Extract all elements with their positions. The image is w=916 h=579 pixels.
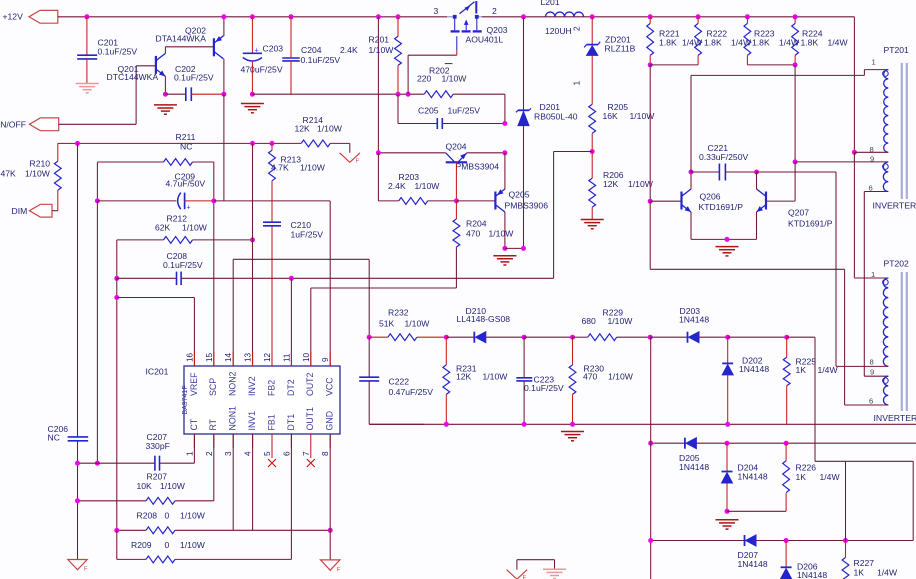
svg-text:NC: NC [180, 141, 192, 151]
capacitor C209 (electrolytic) [97, 200, 176, 202]
svg-text:R210: R210 [30, 159, 51, 169]
svg-text:1/4W: 1/4W [731, 37, 752, 47]
svg-text:1.8K: 1.8K [704, 37, 722, 47]
resistor R224 [794, 17, 796, 24]
resistor R226 [785, 443, 787, 461]
node PT201 pin8 feed [852, 150, 857, 155]
node C203 bottom / ground [250, 92, 255, 97]
svg-text:5: 5 [263, 451, 272, 456]
wire pin8 GND down [329, 434, 331, 560]
node D202 top [725, 335, 730, 340]
resistor R225 [786, 337, 788, 357]
svg-text:R226: R226 [796, 463, 817, 473]
svg-text:1/10W: 1/10W [483, 372, 509, 382]
wire D207 row [651, 540, 914, 542]
svg-text:6: 6 [282, 451, 291, 456]
resistor R213 [271, 143, 273, 150]
node D204 top [725, 441, 730, 446]
wire PT202 pin9 [864, 375, 888, 377]
wire PT201 pin1 feed [691, 74, 864, 76]
node bus-R221 [648, 14, 653, 19]
svg-text:DT2: DT2 [286, 379, 296, 396]
svg-text:NON2: NON2 [228, 371, 238, 396]
node C209 right / VCC wire [211, 198, 216, 203]
wire PT202 pin1 [854, 277, 888, 279]
wire Q206 collector riser [690, 172, 692, 189]
connector DIM [29, 204, 52, 217]
svg-text:FB2: FB2 [266, 380, 276, 396]
wire R204 bottom to OUT2 net [455, 247, 457, 288]
wire ON/OFF to Q201 base [59, 123, 136, 125]
node R229 right [648, 335, 653, 340]
svg-text:L201: L201 [541, 0, 560, 7]
wire Q207 collector to PT202 pin8 [756, 172, 758, 189]
svg-text:R201: R201 [369, 34, 390, 44]
svg-text:RT: RT [208, 418, 218, 430]
wire x77 vertical (bus143 to frame ground) [77, 143, 79, 437]
node bus143-INV2 [250, 141, 255, 146]
transformer PT201 primary [884, 70, 889, 153]
wire Q203 gate lead [456, 36, 458, 50]
svg-text:15: 15 [205, 352, 214, 362]
svg-text:1/10W: 1/10W [608, 372, 634, 382]
wire PT201 pin6 [864, 191, 888, 193]
node rail-R231 [444, 422, 449, 427]
svg-text:0.33uF/250V: 0.33uF/250V [699, 152, 748, 162]
capacitor C208 [117, 277, 177, 279]
node PT201 pin9 to base [793, 159, 798, 164]
svg-text:VREF: VREF [189, 372, 199, 396]
resistor R209 [116, 530, 118, 559]
svg-text:OUT2: OUT2 [305, 372, 315, 396]
wire Q207 emitter down [756, 212, 758, 239]
svg-text:C222: C222 [389, 377, 410, 387]
wire Q202 collector down [223, 59, 225, 94]
diode D204 (vertical) [726, 443, 728, 471]
node bus-ZD201 [590, 14, 595, 19]
wire Q206 base lead [650, 200, 681, 202]
wire PT201 pin8 [854, 151, 888, 153]
svg-text:1K: 1K [796, 365, 807, 375]
wire D201 bottom to ground node [505, 247, 524, 249]
svg-text:INV1: INV1 [247, 411, 257, 431]
resistor R212 [117, 239, 164, 241]
node x97-pin1row [95, 461, 100, 466]
diode D202 (vertical) [727, 337, 729, 363]
wire VCC row [214, 200, 330, 202]
svg-text:470: 470 [466, 229, 481, 239]
transistor Q202 [213, 38, 215, 56]
transformer PT202 secondary [884, 376, 889, 405]
svg-text:ON/OFF: ON/OFF [0, 119, 26, 129]
svg-text:R207: R207 [147, 472, 168, 482]
node R207-x77 [75, 498, 80, 503]
node R225 top [784, 335, 789, 340]
node C221 left [689, 170, 694, 175]
svg-text:1/4W: 1/4W [828, 37, 849, 47]
wire pin4 INV1 [252, 434, 254, 530]
svg-text:2.4K: 2.4K [388, 181, 406, 191]
svg-text:8: 8 [321, 451, 330, 456]
svg-text:1N4148: 1N4148 [739, 364, 769, 374]
svg-text:PT202: PT202 [884, 259, 910, 269]
node R201 bottom [396, 92, 401, 97]
svg-text:9: 9 [870, 155, 874, 164]
svg-text:F: F [337, 567, 341, 573]
wire PT202 pin6 [845, 404, 889, 406]
wire dim feedback bridge [815, 460, 913, 462]
resistor R202 [424, 91, 453, 98]
svg-text:1uF/25V: 1uF/25V [291, 229, 324, 239]
svg-text:1/10W: 1/10W [25, 169, 51, 179]
wire R212 left down to C208 [116, 240, 118, 278]
frame arrow bottom center [516, 560, 518, 570]
svg-text:9: 9 [870, 368, 874, 377]
resistor R206 [591, 152, 593, 179]
svg-text:R204: R204 [466, 219, 487, 229]
diode D207 [744, 535, 746, 546]
resistor R205 [589, 104, 596, 133]
svg-text:1N4148: 1N4148 [679, 462, 709, 472]
svg-text:C205: C205 [418, 106, 439, 116]
svg-text:RLZ11B: RLZ11B [605, 44, 636, 54]
svg-text:0.1uF/25V: 0.1uF/25V [524, 383, 564, 393]
wire control bus y143 [58, 142, 301, 144]
node D201 bottom [521, 246, 526, 251]
ground (light) bottom center [543, 568, 566, 570]
node R226 top [784, 441, 789, 446]
svg-text:Q203: Q203 [487, 25, 508, 35]
svg-text:11: 11 [282, 353, 291, 362]
svg-text:0: 0 [165, 511, 170, 521]
pin stubs red top [193, 352, 195, 366]
svg-text:120UH: 120UH [545, 26, 572, 36]
node rail-D202 [725, 422, 730, 427]
node Q206 base [648, 199, 653, 204]
node bus-R201d [376, 14, 381, 19]
transistor Q205 [494, 192, 496, 210]
wire D201 bottom [523, 126, 525, 249]
node C205 right [502, 121, 507, 126]
wire bus down to Q204 area [377, 17, 379, 153]
capacitor C203 (electrolytic) [251, 17, 253, 54]
node R208-x116 [114, 528, 119, 533]
svg-text:2: 2 [205, 451, 214, 456]
svg-text:1/10W: 1/10W [180, 540, 206, 550]
node bus-R224 [793, 14, 798, 19]
wire Q205 collector down [504, 212, 506, 248]
node DT2 on line A [289, 276, 294, 281]
node Q204 row right [502, 150, 507, 155]
svg-text:INVERTER: INVERTER [874, 413, 916, 423]
diode D210 [446, 336, 474, 338]
op-amp IC201 BA9741F body [184, 366, 340, 434]
inductor L201 [546, 12, 584, 17]
svg-text:OUT1: OUT1 [305, 407, 315, 431]
wire bus right corner down [853, 17, 855, 153]
svg-text:R211: R211 [176, 132, 196, 142]
resistor R207 [146, 497, 175, 504]
svg-text:330pF: 330pF [146, 441, 170, 451]
wire down to C205 right [504, 94, 506, 123]
svg-text:Q205: Q205 [509, 190, 530, 200]
svg-text:1/10W: 1/10W [489, 229, 515, 239]
node C208 left [114, 276, 119, 281]
ground (light) under C201 [76, 83, 99, 85]
node C221 right [754, 170, 759, 175]
transistor Q206 [680, 192, 682, 210]
svg-text:+: + [255, 48, 259, 55]
node R230 top [570, 335, 575, 340]
svg-text:VCC: VCC [325, 377, 335, 396]
pin 7 no-connect [310, 434, 312, 458]
svg-text:KTD1691/P: KTD1691/P [788, 219, 833, 229]
svg-text:1/10W: 1/10W [442, 74, 468, 84]
svg-text:12: 12 [263, 352, 272, 362]
node GND row [328, 528, 333, 533]
svg-text:16: 16 [185, 352, 194, 362]
wire row337 to R230 [524, 336, 572, 338]
svg-text:470uF/25V: 470uF/25V [241, 65, 283, 75]
svg-text:0.47uF/25V: 0.47uF/25V [389, 387, 434, 397]
wire DT comp net to R205/R206 node [554, 151, 593, 153]
svg-text:+12V: +12V [3, 12, 24, 22]
wire R204 top stub [455, 201, 457, 219]
svg-text:1/10W: 1/10W [608, 316, 634, 326]
wire to Q205 base [456, 200, 494, 202]
svg-text:47K: 47K [1, 169, 17, 179]
wire feedback to PT202 pin6 [650, 268, 844, 270]
transformer PT201 secondary [883, 162, 888, 192]
node bus-D201 [521, 14, 526, 19]
svg-text:CT: CT [189, 418, 199, 430]
svg-text:9: 9 [321, 357, 330, 362]
wire NON2 down to R232 node [368, 259, 370, 337]
svg-text:1/4W: 1/4W [682, 37, 703, 47]
svg-text:1/10W: 1/10W [300, 163, 326, 173]
svg-text:10K: 10K [137, 481, 153, 491]
svg-text:Q206: Q206 [700, 192, 721, 202]
frame ground IC [321, 560, 340, 570]
svg-text:1/10W: 1/10W [630, 111, 656, 121]
capacitor C205 [397, 94, 399, 123]
svg-text:10: 10 [302, 352, 311, 362]
svg-text:IC201: IC201 [146, 367, 169, 377]
node D204 bottom [725, 509, 730, 514]
wire pin6 DT1 [290, 434, 292, 559]
node bus-R222 [696, 14, 701, 19]
frame ground bottom-left [68, 560, 87, 570]
wire Q206 base net vertical [649, 65, 651, 201]
svg-text:4.7uF/50V: 4.7uF/50V [166, 179, 206, 189]
capacitor C201 [86, 17, 88, 55]
svg-text:1/10W: 1/10W [160, 481, 186, 491]
node row540-left [648, 538, 653, 543]
svg-text:62K: 62K [155, 222, 171, 232]
svg-text:4.7K: 4.7K [271, 163, 289, 173]
capacitor C223 [523, 337, 525, 378]
capacitor C206 [68, 436, 89, 438]
resistor R214 [301, 140, 330, 147]
node R224 bottom [793, 62, 798, 67]
wire Q206 emitter down [690, 212, 692, 239]
wire R211/C209 right vertical = SCP pin [213, 162, 215, 366]
svg-text:DT1: DT1 [286, 414, 296, 431]
wire gate net up to Q203 gate [407, 55, 409, 94]
node R203 right / Q204 base / R204 top [454, 198, 459, 203]
node bus-Q202 [221, 14, 226, 19]
resistor R210 [57, 143, 59, 161]
capacitor C204 [290, 17, 292, 58]
capacitor C207 [154, 456, 156, 471]
svg-text:1N4148: 1N4148 [738, 472, 768, 482]
svg-text:1/10W: 1/10W [415, 181, 441, 191]
frame arrow after R214 [340, 153, 360, 163]
svg-text:1K: 1K [854, 568, 865, 578]
ground under R206 [581, 219, 604, 221]
svg-text:1/4W: 1/4W [877, 568, 898, 578]
capacitor C210 [263, 221, 281, 223]
node bus-C204 [289, 14, 294, 19]
svg-text:1/10W: 1/10W [182, 222, 208, 232]
node R221 bottom [648, 62, 653, 67]
wire Q207 base lead [766, 200, 795, 202]
wire C209 left vertical down to pin1 row [96, 201, 98, 463]
transistor Q207 [765, 192, 767, 210]
svg-text:1/10W: 1/10W [405, 319, 431, 329]
svg-text:220: 220 [417, 74, 432, 84]
svg-text:12K: 12K [295, 124, 311, 134]
svg-text:2: 2 [572, 26, 582, 31]
svg-text:R227: R227 [854, 558, 875, 568]
core PT201 [901, 63, 903, 199]
svg-text:16K: 16K [603, 111, 619, 121]
node Q202 collector / C202 / VCC feed [221, 92, 226, 97]
wire VCC feed down to VCC row [223, 94, 225, 201]
wire bottom rail [369, 423, 424, 425]
svg-text:INVERTER: INVERTER [873, 201, 916, 211]
svg-text:1/4W: 1/4W [818, 365, 839, 375]
svg-text:C210: C210 [291, 220, 312, 230]
wire NON2 row [232, 259, 234, 366]
diode D205 [684, 438, 686, 449]
svg-text:RB050L-40: RB050L-40 [534, 112, 578, 122]
resistor R229 [573, 336, 588, 338]
svg-text:1N4148: 1N4148 [679, 315, 709, 325]
ground under Q205 [493, 255, 516, 257]
svg-text:8: 8 [870, 358, 874, 367]
pin stubs red bottom [193, 434, 195, 448]
resistor R230 [572, 337, 574, 365]
wire PT202 pin8 [836, 365, 888, 367]
capacitor C222 [368, 337, 370, 377]
zener ZD201 [591, 17, 593, 45]
svg-text:1.8K: 1.8K [659, 37, 677, 47]
svg-text:1N4148: 1N4148 [797, 570, 827, 579]
connector +12V [29, 10, 58, 23]
svg-text:6: 6 [869, 184, 873, 193]
wire R211 left down [96, 162, 98, 201]
diode D206 (vertical, clipped) [785, 541, 787, 568]
node bus-R201 [396, 14, 401, 19]
svg-text:2.4K: 2.4K [340, 45, 358, 55]
svg-text:3: 3 [434, 6, 439, 16]
node R231 top [444, 335, 449, 340]
wire PT201 pin6 down to PT202 pin9 [863, 192, 865, 377]
svg-text:0.1uF/25V: 0.1uF/25V [163, 260, 203, 270]
svg-text:AOU401L: AOU401L [466, 35, 504, 45]
node emitters [725, 237, 730, 242]
resistor R203 [377, 153, 379, 201]
node R212 right on INV2 line [250, 237, 255, 242]
svg-text:R232: R232 [388, 308, 409, 318]
ground under D204 [716, 519, 739, 521]
svg-text:R208: R208 [137, 511, 158, 521]
ground on rail [561, 431, 584, 433]
resistor R232 [369, 336, 388, 338]
svg-text:1N4148: 1N4148 [738, 559, 768, 569]
pin 5 no-connect [271, 434, 273, 458]
wire R214 right to frame arrow [330, 142, 350, 144]
node R205-R206 [590, 149, 595, 154]
svg-text:+: + [187, 205, 191, 212]
node C209 left [95, 198, 100, 203]
diode D201 [518, 109, 529, 111]
svg-text:680: 680 [582, 316, 597, 326]
mark above R202 [445, 63, 453, 65]
wire OUT2 riser [310, 288, 312, 366]
node D206 top [784, 538, 789, 543]
svg-text:Q204: Q204 [446, 142, 467, 152]
diode D203 [650, 336, 687, 338]
wire PT201 pin9 [795, 161, 888, 163]
node bus143-R213 [270, 141, 275, 146]
wire emitter join [691, 238, 757, 240]
svg-text:PT201: PT201 [884, 45, 910, 55]
svg-text:13: 13 [244, 352, 253, 362]
svg-text:3: 3 [224, 451, 233, 456]
wire DT2 riser [290, 278, 292, 366]
svg-text:1/10W: 1/10W [369, 45, 395, 55]
svg-text:0.1uF/25V: 0.1uF/25V [98, 47, 138, 57]
wire x650 vertical lower [650, 337, 652, 443]
svg-text:F: F [84, 567, 88, 573]
wire Q201 emitter down [164, 76, 166, 94]
svg-text:1K: 1K [796, 472, 807, 482]
resistor R221 [649, 17, 651, 24]
svg-text:KTD1691/P: KTD1691/P [699, 202, 744, 212]
node C223 top [522, 335, 527, 340]
node bus-C203 [250, 14, 255, 19]
svg-text:4: 4 [244, 451, 253, 456]
node R227 top [843, 538, 848, 543]
svg-text:1/10W: 1/10W [180, 511, 206, 521]
wire Q204 emitter row [378, 152, 445, 154]
svg-text:LL4148-GS08: LL4148-GS08 [457, 314, 511, 324]
svg-text:1/4W: 1/4W [779, 37, 800, 47]
svg-text:0: 0 [165, 540, 170, 550]
svg-text:14: 14 [224, 352, 233, 362]
transformer PT202 primary [883, 278, 888, 366]
svg-text:R209: R209 [131, 540, 152, 550]
node pin1row-x77 [75, 461, 80, 466]
transistor Q204 [446, 161, 467, 163]
svg-text:F: F [523, 575, 527, 579]
svg-text:51K: 51K [379, 319, 395, 329]
svg-text:1: 1 [872, 58, 876, 67]
svg-text:FB1: FB1 [266, 414, 276, 430]
svg-text:6: 6 [869, 397, 873, 406]
